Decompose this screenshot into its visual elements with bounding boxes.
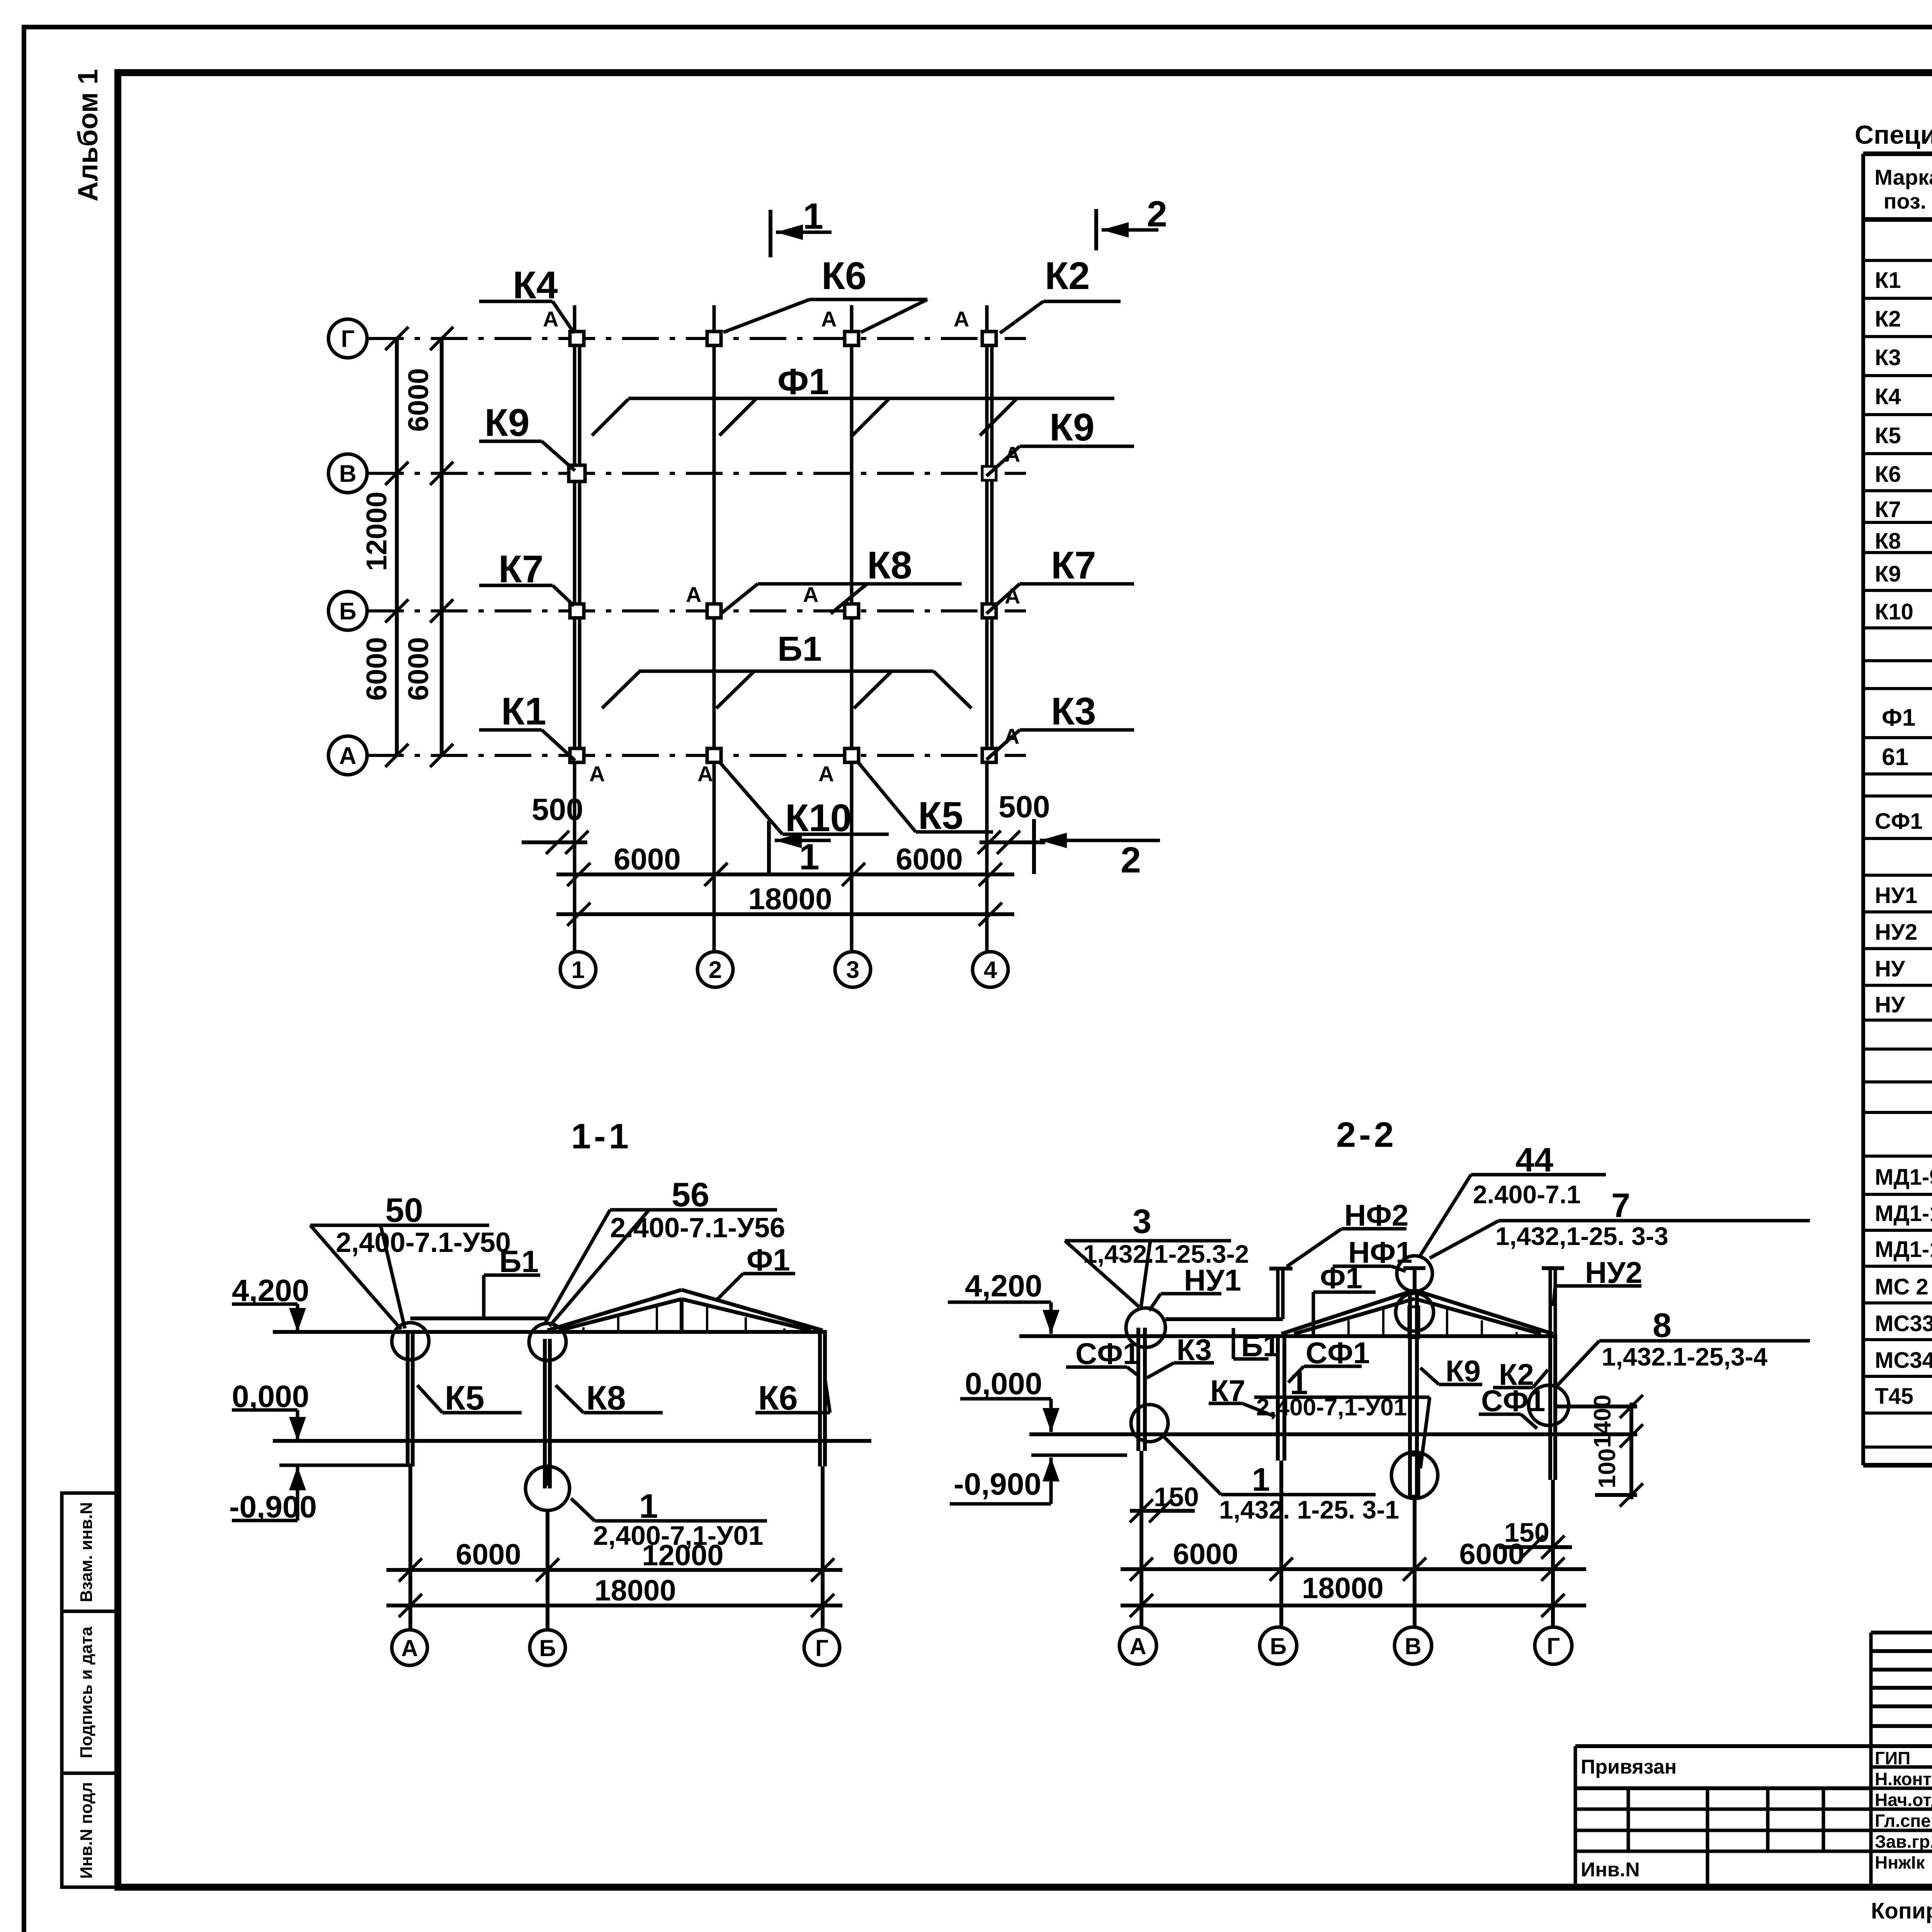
svg-text:НнжIк: НнжIк (1875, 1852, 1925, 1872)
svg-text:А: А (803, 582, 818, 607)
svg-text:4,200: 4,200 (965, 1269, 1042, 1303)
svg-text:3: 3 (1133, 1202, 1151, 1240)
svg-text:2: 2 (709, 957, 722, 983)
svg-text:НУ1: НУ1 (1875, 883, 1917, 908)
svg-text:К3: К3 (1875, 345, 1901, 370)
svg-text:Нач.отд: Нач.отд (1875, 1790, 1932, 1810)
svg-text:Подпись и дата: Подпись и дата (77, 1626, 96, 1758)
svg-text:6000: 6000 (896, 842, 963, 876)
svg-text:К8: К8 (867, 544, 912, 587)
svg-text:НУ2: НУ2 (1875, 920, 1917, 945)
svg-text:Зав.гр.: Зав.гр. (1875, 1832, 1932, 1852)
svg-text:А: А (589, 762, 605, 786)
svg-text:СФ1: СФ1 (1875, 809, 1923, 834)
svg-text:2,400-7.1-У50: 2,400-7.1-У50 (336, 1227, 511, 1258)
svg-text:0,000: 0,000 (965, 1366, 1042, 1401)
svg-text:1,432. 1-25. 3-1: 1,432. 1-25. 3-1 (1219, 1495, 1399, 1524)
svg-text:Г: Г (1547, 1633, 1560, 1659)
svg-text:МД1-9: МД1-9 (1875, 1165, 1932, 1190)
svg-text:Б: Б (539, 1635, 556, 1661)
svg-text:Марка,: Марка, (1874, 165, 1932, 189)
svg-text:1: 1 (571, 957, 585, 983)
svg-text:2.400-7.1-У56: 2.400-7.1-У56 (610, 1213, 785, 1243)
svg-text:В: В (339, 461, 357, 487)
svg-text:Копировал.: Копировал. (1871, 1898, 1932, 1923)
svg-text:К1: К1 (1875, 268, 1901, 293)
svg-text:7: 7 (1611, 1186, 1630, 1225)
svg-text:500: 500 (998, 789, 1050, 824)
svg-text:6000: 6000 (402, 368, 434, 432)
svg-text:Н.контр.: Н.контр. (1875, 1769, 1932, 1789)
svg-text:А: А (1004, 724, 1019, 748)
svg-text:А: А (686, 582, 701, 607)
svg-text:НУ: НУ (1875, 956, 1905, 981)
svg-text:4: 4 (984, 957, 997, 983)
svg-text:6000: 6000 (402, 637, 434, 701)
svg-text:1,432,1-25. 3-3: 1,432,1-25. 3-3 (1495, 1222, 1668, 1250)
svg-text:А: А (1005, 442, 1020, 466)
svg-text:НФ1: НФ1 (1348, 1235, 1412, 1269)
svg-text:А: А (543, 307, 558, 331)
svg-text:К9: К9 (1875, 561, 1901, 587)
svg-text:6000: 6000 (1173, 1538, 1238, 1571)
svg-text:К6: К6 (821, 254, 867, 298)
svg-text:К10: К10 (1875, 599, 1913, 624)
svg-text:А: А (818, 762, 834, 786)
svg-text:1,432.1-25,3-4: 1,432.1-25,3-4 (1602, 1342, 1768, 1371)
svg-text:Г: Г (815, 1635, 828, 1661)
svg-text:К3: К3 (1051, 690, 1096, 733)
svg-text:18000: 18000 (1302, 1572, 1383, 1605)
svg-text:1-1: 1-1 (571, 1117, 632, 1156)
svg-text:К2: К2 (1045, 254, 1090, 298)
svg-text:К7: К7 (1051, 544, 1096, 587)
svg-text:А: А (821, 307, 837, 331)
svg-text:К8: К8 (1875, 529, 1901, 554)
svg-text:НУ: НУ (1875, 992, 1905, 1017)
svg-text:К2: К2 (1875, 306, 1901, 332)
svg-text:56: 56 (672, 1175, 709, 1214)
svg-text:К9: К9 (485, 401, 530, 444)
svg-text:6000: 6000 (1459, 1538, 1524, 1571)
svg-text:А: А (401, 1635, 418, 1661)
svg-text:А: А (1005, 584, 1020, 608)
svg-text:6000: 6000 (456, 1538, 521, 1571)
svg-text:150: 150 (1154, 1482, 1199, 1512)
svg-text:1: 1 (1252, 1461, 1270, 1498)
svg-text:МД1-10: МД1-10 (1875, 1201, 1932, 1226)
svg-text:6000: 6000 (614, 842, 681, 876)
svg-text:2.400-7.1: 2.400-7.1 (1473, 1180, 1581, 1209)
svg-text:К5: К5 (1875, 423, 1901, 448)
svg-text:А: А (1129, 1633, 1146, 1659)
svg-text:-0,900: -0,900 (954, 1467, 1041, 1501)
svg-text:Инв.N: Инв.N (1581, 1859, 1640, 1881)
svg-text:12000: 12000 (361, 492, 393, 571)
svg-text:К9: К9 (1049, 406, 1095, 449)
svg-text:Инв.N подл: Инв.N подл (77, 1782, 96, 1879)
svg-text:2: 2 (1121, 840, 1141, 881)
svg-text:МС33: МС33 (1875, 1311, 1932, 1336)
svg-text:2: 2 (1147, 194, 1167, 235)
svg-text:1: 1 (803, 196, 823, 237)
svg-text:поз.: поз. (1884, 189, 1927, 213)
svg-text:МС 2: МС 2 (1875, 1274, 1929, 1299)
svg-text:12000: 12000 (642, 1539, 723, 1572)
svg-text:К1: К1 (501, 690, 546, 733)
svg-text:2,400-7,1-У01: 2,400-7,1-У01 (1256, 1394, 1407, 1421)
svg-text:В: В (1405, 1633, 1421, 1659)
svg-text:А: А (697, 762, 713, 786)
svg-text:А: А (339, 743, 357, 769)
svg-text:МС34: МС34 (1875, 1348, 1932, 1373)
svg-text:К7: К7 (1875, 497, 1901, 522)
svg-text:Б: Б (1270, 1633, 1286, 1659)
svg-text:8: 8 (1653, 1306, 1672, 1344)
svg-text:А: А (954, 307, 969, 331)
svg-text:61: 61 (1882, 744, 1908, 770)
svg-text:К6: К6 (1875, 462, 1901, 487)
svg-text:МД1-11: МД1-11 (1875, 1237, 1932, 1262)
svg-text:3: 3 (846, 957, 859, 983)
svg-text:50: 50 (385, 1191, 423, 1229)
svg-text:1400: 1400 (1589, 1395, 1616, 1448)
svg-text:Ф1: Ф1 (1882, 704, 1915, 731)
svg-text:18000: 18000 (594, 1574, 676, 1607)
svg-text:ГИП: ГИП (1875, 1748, 1910, 1768)
svg-text:Г: Г (341, 326, 354, 352)
svg-text:500: 500 (532, 792, 583, 827)
svg-text:1: 1 (799, 837, 820, 878)
svg-text:2-2: 2-2 (1336, 1115, 1397, 1155)
svg-text:Б1: Б1 (777, 630, 822, 668)
svg-text:Взам. инв.N: Взам. инв.N (77, 1502, 96, 1602)
svg-text:Б: Б (339, 598, 357, 625)
svg-text:Т45: Т45 (1875, 1384, 1913, 1409)
svg-text:6000: 6000 (361, 637, 393, 701)
svg-text:100: 100 (1594, 1448, 1621, 1488)
svg-text:К4: К4 (1875, 384, 1901, 409)
svg-text:18000: 18000 (748, 882, 832, 916)
svg-text:Альбом 1: Альбом 1 (73, 69, 104, 202)
svg-text:Ф1: Ф1 (777, 361, 829, 402)
svg-text:Спецификация к схеме расположе: Спецификация к схеме расположения элемен… (1855, 120, 1932, 150)
svg-text:Привязан: Привязан (1581, 1756, 1677, 1778)
svg-text:Гл.спец: Гл.спец (1875, 1811, 1932, 1831)
